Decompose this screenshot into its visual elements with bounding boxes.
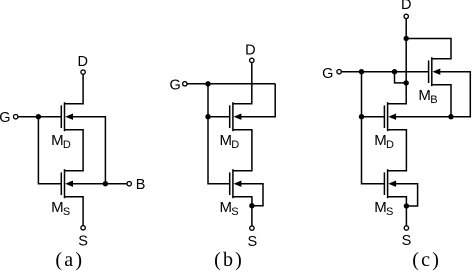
transistor M_S (panel a) <box>61 169 73 198</box>
wire G line to M_B gate (panel c) <box>342 71 429 73</box>
junction bulk node (panel c) <box>448 114 453 119</box>
svg-text:S: S <box>247 234 257 250</box>
transistor M_S (panel c) <box>384 169 396 198</box>
svg-text:M: M <box>220 132 233 149</box>
junction at M_D gate tap (panel b) <box>205 114 210 119</box>
wire M_D gate lead (panel b) <box>208 116 230 118</box>
svg-text:M: M <box>51 132 64 149</box>
svg-text:S: S <box>63 206 70 218</box>
terminal circle D (panel b) <box>250 58 254 62</box>
transistor M_D (panel a) <box>61 102 73 131</box>
junction on gate wire (panel a) <box>36 114 41 119</box>
terminal circle D (panel a) <box>81 70 85 74</box>
wire M_S bulk loop to source (panel b) <box>241 184 263 206</box>
wire D to M_D drain (panel a) <box>65 75 84 104</box>
wire M_D source to M_S drain (panel b) <box>233 130 252 171</box>
wire gate chain down to M_S gate (panel b) <box>208 84 230 184</box>
terminal circle B (panel a) <box>127 182 131 186</box>
svg-text:M: M <box>418 87 431 104</box>
svg-text:B: B <box>136 177 146 193</box>
junction D to M_B drain tap (panel c) <box>404 36 409 41</box>
transistor M_D (panel b) <box>230 102 242 131</box>
terminal circle D (panel c) <box>404 14 408 18</box>
wire jog G to D line (panel c) <box>395 72 407 83</box>
svg-text:D: D <box>401 0 411 13</box>
wire gate junction down to M_S gate (panel a) <box>38 117 61 184</box>
wire M_S bulk to B terminal (panel a) <box>73 183 127 185</box>
svg-text:B: B <box>430 94 437 106</box>
wire M_B source down to bulk node (panel c) <box>432 85 451 117</box>
wire M_S source to S (panel a) <box>65 197 84 226</box>
svg-text:S: S <box>402 233 412 249</box>
svg-text:D: D <box>245 42 255 58</box>
wire D to M_D drain (panel b) <box>233 63 252 104</box>
svg-text:S: S <box>231 206 238 218</box>
terminal circle G (panel c) <box>337 70 341 74</box>
junction at M_D gate tap (panel c) <box>359 114 364 119</box>
svg-text:G: G <box>322 66 333 82</box>
wire M_D bulk down to B line (panel a) <box>73 117 106 184</box>
transistor M_S (panel b) <box>230 169 242 198</box>
svg-text:M: M <box>51 199 64 216</box>
junction bulk-source (panel c) <box>404 203 409 208</box>
svg-text:S: S <box>386 206 393 218</box>
transistor M_D (panel c) <box>384 102 396 131</box>
terminal circle S (panel b) <box>250 226 254 230</box>
junction bulk node B (panel a) <box>103 181 108 186</box>
svg-text:M: M <box>220 199 233 216</box>
svg-text:(a): (a) <box>55 249 84 271</box>
terminal circle G (panel b) <box>183 82 187 86</box>
wire M_D bulk to bulk node (panel c) <box>396 116 451 118</box>
wire G line to right corner (panel b) <box>187 83 275 85</box>
svg-text:(c): (c) <box>412 249 441 271</box>
terminal circle S (panel a) <box>81 226 85 230</box>
wire M_S source to S (panel b) <box>233 197 252 226</box>
wire G to M_D gate (panel a) <box>18 116 61 118</box>
wire D to M_B drain (panel c) <box>406 39 451 59</box>
terminal circle G (panel a) <box>14 115 18 119</box>
wire M_S source to S (panel c) <box>388 197 407 226</box>
svg-text:M: M <box>374 199 387 216</box>
wire M_B bulk loop (panel c) <box>440 72 471 117</box>
svg-text:D: D <box>386 139 394 151</box>
svg-text:(b): (b) <box>214 249 244 271</box>
svg-text:D: D <box>63 139 71 151</box>
wire gate chain down to M_S gate (panel c) <box>362 72 385 184</box>
junction bulk-source (panel b) <box>249 203 254 208</box>
wire right corner down to M_D bulk (panel b) <box>241 84 275 117</box>
wire M_D gate lead (panel c) <box>362 116 385 118</box>
svg-text:D: D <box>77 54 87 70</box>
transistor M_B (panel c) <box>429 57 441 86</box>
wire M_S bulk loop to source (panel c) <box>396 184 418 206</box>
wire D down to M_D drain (panel c) <box>388 19 407 104</box>
junction G to gate chain (panel c) <box>359 69 364 74</box>
terminal circle S (panel c) <box>404 226 408 230</box>
svg-text:G: G <box>0 110 11 126</box>
junction on G line (panel b) <box>205 81 210 86</box>
svg-text:S: S <box>78 233 88 249</box>
wire M_D source to M_S drain (panel a) <box>65 130 84 171</box>
wire M_D source to M_S drain (panel c) <box>388 130 407 171</box>
junction jog on D line (panel c) <box>404 80 409 85</box>
svg-text:G: G <box>170 78 181 94</box>
svg-text:D: D <box>231 139 239 151</box>
junction G to jog (panel c) <box>392 69 397 74</box>
svg-text:M: M <box>374 132 387 149</box>
